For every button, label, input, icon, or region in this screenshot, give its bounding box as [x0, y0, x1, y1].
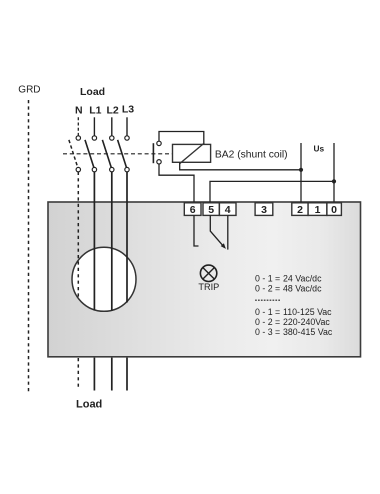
wire N load side (dashed) [77, 172, 79, 299]
terminal 1 [308, 203, 327, 216]
Us supply line to terminal 2 [300, 143, 302, 203]
junction dot [332, 179, 336, 183]
svg-text:4: 4 [225, 204, 231, 216]
shunt coil BA2 box [173, 144, 211, 162]
wire L1 supply stub [93, 117, 95, 135]
wire below terminal 4 [227, 215, 229, 249]
GRD dashed earth wire [28, 100, 30, 392]
wire coil bottom to Us line [180, 162, 301, 170]
svg-text:220-240Vac: 220-240Vac [283, 317, 330, 327]
device enclosure (gray box) [48, 202, 361, 357]
Us supply line to terminal 0 [333, 143, 335, 203]
mechanical linkage (dashed) [63, 153, 173, 155]
terminal 3 [255, 203, 273, 216]
TRIP indicator circle [200, 265, 216, 281]
svg-text:6: 6 [190, 204, 196, 216]
breaker pole L2 blade [102, 140, 111, 168]
auxiliary contact circles [157, 141, 161, 145]
svg-text:0 - 1 =: 0 - 1 = [255, 307, 280, 317]
junction dot [299, 168, 303, 172]
terminal 5 [203, 203, 219, 216]
wire L3 load side [126, 172, 128, 303]
wire L3 bottom stub [126, 358, 128, 391]
wire L2 bottom stub [111, 358, 113, 391]
svg-text:110-125 Vac: 110-125 Vac [283, 307, 332, 317]
wire terminal 5 to Us line 0 [210, 181, 334, 202]
svg-text:2: 2 [297, 204, 303, 216]
svg-text:GRD: GRD [18, 85, 40, 96]
terminal 2 [292, 203, 308, 216]
wire L2 supply stub [111, 117, 113, 135]
auxiliary contact bar [152, 143, 154, 163]
separator dashes [255, 299, 281, 301]
wire L2 load side [111, 172, 113, 311]
wire L3 supply stub [126, 117, 128, 135]
svg-text:BA2 (shunt coil): BA2 (shunt coil) [215, 149, 288, 160]
terminal 6 [184, 203, 201, 216]
wire N supply stub (dashed) [77, 117, 79, 135]
svg-text:380-415 Vac: 380-415 Vac [283, 327, 333, 337]
svg-text:L3: L3 [122, 104, 134, 116]
shunt coil diagonal [180, 143, 205, 164]
svg-text:N: N [75, 105, 83, 117]
terminal 0 [327, 203, 342, 216]
svg-text:0 - 1 =: 0 - 1 = [255, 274, 280, 284]
trip linkage from terminal 5 with arrow [210, 215, 224, 247]
terminal 4 [219, 203, 236, 216]
svg-text:5: 5 [208, 204, 214, 216]
svg-text:Load: Load [76, 399, 102, 411]
breaker pole L3 blade [118, 140, 127, 168]
svg-text:0: 0 [331, 204, 337, 216]
svg-text:L2: L2 [106, 105, 118, 117]
breaker pole L1 contact circles [92, 136, 96, 140]
breaker pole L1 blade [85, 140, 94, 168]
svg-text:TRIP: TRIP [198, 282, 219, 292]
breaker pole N blade (dashed) [69, 140, 78, 168]
svg-text:L1: L1 [89, 105, 101, 117]
svg-text:0 - 2 =: 0 - 2 = [255, 284, 280, 294]
wire contact-bottom to terminal 6 [159, 164, 194, 203]
wire N bottom stub (dashed) [77, 358, 79, 389]
wire L1 bottom stub [93, 358, 95, 391]
breaker pole N contact circles [76, 136, 80, 140]
svg-text:48 Vac/dc: 48 Vac/dc [283, 284, 322, 294]
svg-text:24 Vac/dc: 24 Vac/dc [283, 274, 322, 284]
svg-text:3: 3 [261, 204, 267, 216]
wire below terminal 6 with hook [194, 215, 199, 246]
breaker pole L2 contact circles [110, 136, 114, 140]
current transformer circle [72, 247, 136, 311]
svg-text:0 - 3 =: 0 - 3 = [255, 327, 280, 337]
svg-text:Us: Us [314, 144, 325, 154]
arrowhead [221, 243, 226, 249]
svg-text:Load: Load [80, 86, 105, 98]
breaker pole L3 contact circles [125, 136, 129, 140]
wire L1 load side [93, 172, 95, 311]
svg-text:1: 1 [315, 204, 321, 216]
wire contact-top to coil top [159, 132, 204, 145]
svg-text:0 - 2 =: 0 - 2 = [255, 317, 280, 327]
